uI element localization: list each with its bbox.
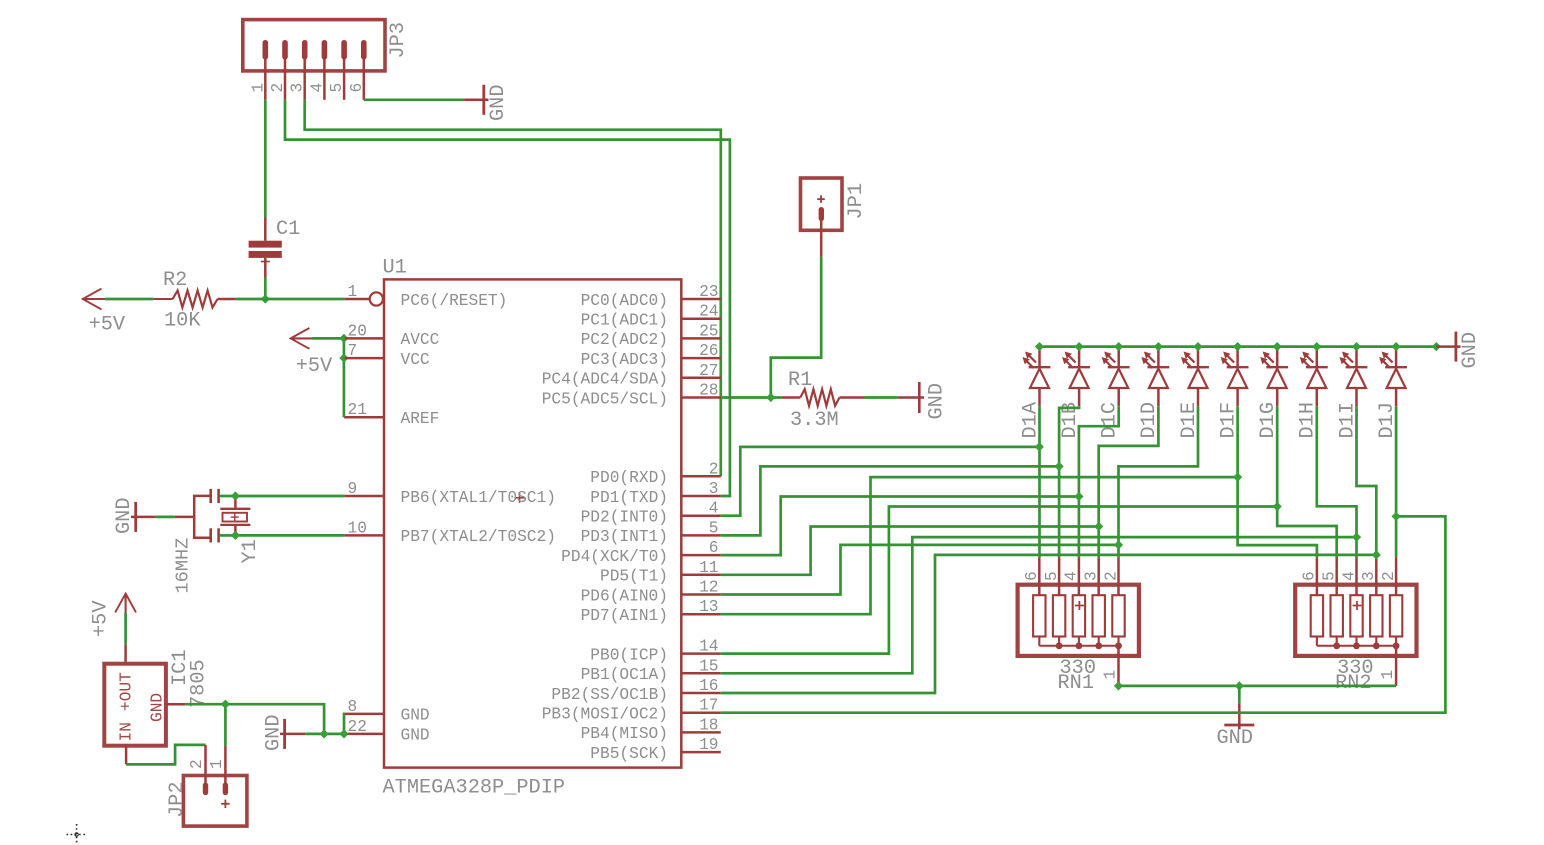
svg-text:PC3(ADC3): PC3(ADC3)	[581, 351, 668, 369]
svg-text:4: 4	[1340, 571, 1358, 581]
svg-text:14: 14	[699, 638, 718, 656]
svg-text:6: 6	[709, 539, 719, 557]
wire LED cathode bus	[1040, 345, 1437, 348]
svg-text:PD4(XCK/T0): PD4(XCK/T0)	[561, 548, 668, 566]
svg-text:GND: GND	[401, 727, 430, 745]
svg-text:U1: U1	[383, 257, 407, 280]
node junction D1H	[1352, 533, 1361, 542]
wire U1 PD2 to D1A	[721, 447, 1040, 516]
resonator Y1 16MHz	[175, 516, 194, 519]
LED D1C	[1117, 347, 1120, 368]
wire U1 PB3 to D1J	[721, 516, 1446, 712]
wire JP3 pin3 to U1 PD0(RXD)	[305, 100, 721, 477]
svg-text:26: 26	[699, 342, 718, 360]
svg-text:Y1: Y1	[239, 539, 262, 563]
svg-text:19: 19	[699, 736, 718, 754]
svg-text:GND: GND	[149, 693, 167, 722]
svg-text:VCC: VCC	[401, 351, 430, 369]
wire U1 PC5 to R1	[721, 396, 782, 399]
svg-text:3: 3	[1083, 571, 1101, 581]
resistor R1 3.3M	[782, 396, 800, 399]
RN2 pin 1	[1395, 646, 1398, 686]
svg-text:PB3(MOSI/OC2): PB3(MOSI/OC2)	[542, 706, 668, 724]
svg-text:PC2(ADC2): PC2(ADC2)	[581, 331, 668, 349]
svg-text:JP3: JP3	[387, 22, 410, 59]
svg-text:4: 4	[1063, 571, 1081, 581]
svg-text:5: 5	[1321, 571, 1339, 581]
wire U1 PD3 to D1B	[721, 466, 1059, 535]
node D1F cathode junction	[1233, 342, 1242, 351]
svg-text:+OUT: +OUT	[118, 672, 136, 711]
wire JP3 pin2 to U1 PD1(TXD)	[285, 100, 730, 496]
wire JP3 pin1 to C1	[264, 100, 267, 218]
svg-text:2: 2	[188, 759, 206, 769]
node XTAL2 junction	[231, 531, 240, 540]
svg-text:7805: 7805	[188, 659, 211, 708]
LED D1A	[1038, 347, 1041, 368]
wire JP2 pin1 drop	[224, 704, 227, 746]
svg-text:R2: R2	[163, 269, 187, 292]
svg-text:RN2: RN2	[1335, 672, 1372, 695]
node junction D1B	[1055, 462, 1064, 471]
svg-text:25: 25	[699, 322, 718, 340]
svg-text:PB2(SS/OC1B): PB2(SS/OC1B)	[551, 686, 668, 704]
LED D1B	[1078, 347, 1081, 368]
svg-text:PB5(SCK): PB5(SCK)	[590, 745, 668, 763]
svg-text:6: 6	[1023, 571, 1041, 581]
wire D1F to RN2 pin6	[1238, 406, 1317, 557]
node GND junction 2	[339, 729, 348, 738]
wire IC1 GND to JP2 pin1 node	[185, 703, 225, 706]
svg-text:PB0(ICP): PB0(ICP)	[590, 646, 668, 664]
wire GND to Y1	[155, 516, 174, 519]
svg-text:23: 23	[699, 283, 718, 301]
node GND junction 1	[320, 729, 329, 738]
node PC5 junction	[766, 393, 775, 402]
node AVCC junction	[339, 334, 348, 343]
svg-text:+5V: +5V	[89, 314, 126, 337]
svg-text:5: 5	[709, 519, 719, 537]
svg-text:15: 15	[699, 657, 718, 675]
node D1C cathode junction	[1114, 342, 1123, 351]
svg-text:3: 3	[709, 480, 719, 498]
svg-text:ATMEGA328P_PDIP: ATMEGA328P_PDIP	[383, 777, 566, 800]
svg-text:PB4(MISO): PB4(MISO)	[581, 725, 668, 743]
wire GND net to U1 GND pins	[225, 704, 324, 734]
node D1G cathode junction	[1273, 342, 1282, 351]
svg-text:JP1: JP1	[845, 183, 868, 220]
svg-text:C1: C1	[276, 218, 300, 241]
svg-text:PC0(ADC0): PC0(ADC0)	[581, 292, 668, 310]
wire +5V to IC1 OUT	[124, 613, 127, 645]
svg-text:PD5(T1): PD5(T1)	[600, 568, 668, 586]
wire D1A to RN1 pin6	[1038, 406, 1041, 557]
resistor network RN1 330	[1018, 585, 1139, 656]
LED D1H	[1316, 347, 1319, 368]
svg-text:PB7(XTAL2/T0SC2): PB7(XTAL2/T0SC2)	[401, 528, 556, 546]
LED D1I	[1355, 347, 1358, 368]
svg-text:PD6(AIN0): PD6(AIN0)	[581, 587, 668, 605]
node D1H cathode junction	[1312, 342, 1321, 351]
svg-text:24: 24	[699, 303, 718, 321]
U1 left-side pins	[345, 298, 370, 301]
svg-text:1: 1	[208, 759, 226, 769]
node VCC junction	[339, 354, 348, 363]
svg-text:1: 1	[348, 283, 358, 301]
wire D1E to RN1 pin2	[1119, 406, 1199, 557]
wire U1 PB0 to D1G	[721, 507, 1277, 654]
wire R1 to GND	[865, 396, 898, 399]
svg-text:GND: GND	[1459, 332, 1482, 369]
wire RESET node to U1 pin1	[265, 298, 344, 301]
svg-text:13: 13	[699, 598, 718, 616]
node RESET junction	[261, 294, 270, 303]
svg-text:7: 7	[348, 342, 358, 360]
wire GND to U1 pin22	[305, 733, 344, 736]
wire R2 to RESET node	[236, 298, 265, 301]
svg-text:GND: GND	[1217, 727, 1254, 750]
wire JP3 pin6 to GND	[364, 98, 464, 101]
svg-text:AREF: AREF	[401, 410, 440, 428]
node junction D1G	[1273, 502, 1282, 511]
wire IC1 IN to JP2 pin2	[126, 745, 205, 765]
svg-text:PD0(RXD): PD0(RXD)	[590, 469, 668, 487]
svg-text:4: 4	[709, 500, 719, 518]
node RN1 pin1	[1114, 681, 1123, 690]
regulator IC1 7805	[124, 645, 127, 664]
wire D1J to RN2 pin2	[1395, 406, 1398, 557]
ground GND (near JP2)	[283, 719, 286, 749]
svg-text:GND: GND	[926, 383, 949, 420]
wire D1I to RN2 pin3	[1357, 406, 1377, 557]
svg-text:2: 2	[1380, 571, 1398, 581]
svg-text:6: 6	[1301, 571, 1319, 581]
svg-text:12: 12	[699, 579, 718, 597]
svg-text:PD7(AIN1): PD7(AIN1)	[581, 607, 668, 625]
wire Y1 to U1 XTAL2	[235, 534, 344, 537]
ground GND (LED bus)	[1436, 345, 1460, 348]
LED D1G	[1276, 347, 1279, 368]
supply +5V (at IC1)	[115, 594, 136, 613]
U1 symbol origin cross	[515, 497, 525, 499]
svg-text:1: 1	[1379, 670, 1397, 680]
svg-text:9: 9	[348, 480, 358, 498]
svg-text:PC5(ADC5/SCL): PC5(ADC5/SCL)	[542, 390, 668, 408]
svg-text:JP2: JP2	[166, 781, 189, 818]
wire U1 PD7 to D1F	[721, 477, 1238, 614]
svg-text:2: 2	[1102, 571, 1120, 581]
ground GND (below RNs)	[1238, 686, 1241, 703]
wire U1 PB1 to D1H	[721, 537, 1357, 673]
node JP2 pin1 junction	[221, 700, 230, 709]
node junction D1J	[1392, 512, 1401, 521]
LED D1J	[1395, 347, 1398, 368]
node D1A cathode junction	[1035, 342, 1044, 351]
node D1E cathode junction	[1193, 342, 1202, 351]
svg-text:PC6(/RESET): PC6(/RESET)	[401, 292, 508, 310]
node junction D1A	[1035, 442, 1044, 451]
svg-text:RN1: RN1	[1058, 672, 1095, 695]
node junction D1C	[1074, 492, 1083, 501]
RN1 pin 1	[1117, 646, 1120, 686]
node XTAL1 junction	[231, 491, 240, 500]
svg-text:10: 10	[348, 519, 367, 537]
svg-text:+5V: +5V	[296, 355, 333, 378]
svg-text:3: 3	[1360, 571, 1378, 581]
svg-text:11: 11	[699, 559, 718, 577]
node junction D1I	[1372, 550, 1381, 559]
svg-text:3.3M: 3.3M	[790, 409, 839, 432]
svg-text:PB1(OC1A): PB1(OC1A)	[581, 666, 668, 684]
svg-text:2: 2	[709, 460, 719, 478]
wire Y1 bottom cap to node	[220, 534, 236, 537]
LED D1E	[1197, 347, 1200, 368]
node bus-GND junction	[1432, 342, 1441, 351]
node D1B cathode junction	[1075, 342, 1084, 351]
resistor R2 10K	[153, 298, 172, 300]
wire RN1 pin1 to RN2 pin1	[1119, 685, 1397, 688]
svg-text:3: 3	[289, 83, 307, 93]
supply +5V (left)	[83, 289, 102, 310]
svg-text:+5V: +5V	[90, 600, 113, 637]
svg-text:18: 18	[699, 716, 718, 734]
svg-text:PC4(ADC4/SDA): PC4(ADC4/SDA)	[542, 371, 668, 389]
ground GND (at JP3)	[464, 99, 488, 102]
svg-text:PD2(INT0): PD2(INT0)	[581, 509, 668, 527]
node GND drop junction	[1235, 681, 1244, 690]
supply +5V (AVCC/VCC)	[291, 328, 310, 349]
wire D1C to RN1 pin4	[1079, 406, 1119, 557]
wire C1 to RESET node	[264, 278, 267, 300]
node D1J cathode junction	[1392, 342, 1401, 351]
wire JP1 to PC5 node	[771, 257, 821, 398]
IC1 IN pin	[125, 746, 128, 765]
sheet origin mark	[67, 834, 88, 836]
svg-text:PC1(ADC1): PC1(ADC1)	[581, 312, 668, 330]
resistor network RN2 330	[1295, 585, 1416, 656]
node D1D cathode junction	[1154, 342, 1163, 351]
svg-text:1: 1	[249, 83, 267, 93]
svg-text:5: 5	[1043, 571, 1061, 581]
U1 right-side pins	[681, 298, 721, 301]
svg-text:PB6(XTAL1/T0SC1): PB6(XTAL1/T0SC1)	[401, 489, 556, 507]
wire to U1 pin8	[343, 714, 346, 734]
svg-text:10K: 10K	[164, 310, 201, 333]
svg-text:28: 28	[699, 382, 718, 400]
svg-text:22: 22	[348, 718, 367, 736]
wire D1B to RN1 pin5	[1059, 406, 1079, 557]
wire D1H to RN2 pin4	[1317, 406, 1357, 557]
svg-text:4: 4	[308, 83, 326, 93]
wire Y1 to U1 XTAL1	[235, 495, 344, 498]
wire U1 PD4 to D1C	[721, 497, 1079, 556]
wire U1 PB2 to D1I	[721, 555, 1377, 693]
svg-text:21: 21	[348, 401, 367, 419]
svg-text:5: 5	[328, 83, 346, 93]
svg-text:27: 27	[699, 362, 718, 380]
svg-text:PD1(TXD): PD1(TXD)	[590, 489, 668, 507]
node junction D1F	[1233, 473, 1242, 482]
node junction D1E	[1114, 540, 1123, 549]
wire D1G to RN2 pin5	[1277, 406, 1337, 557]
wire Y1 top cap to node	[220, 495, 236, 498]
svg-text:GND: GND	[113, 497, 136, 534]
wire D1D to RN1 pin3	[1099, 406, 1159, 557]
svg-text:1: 1	[1102, 670, 1120, 680]
IC U1 ATMEGA328P_PDIP body	[384, 279, 681, 767]
LED D1F	[1236, 347, 1239, 368]
ground GND (at R1)	[898, 396, 924, 399]
svg-text:GND: GND	[487, 84, 510, 121]
capacitor C1	[264, 218, 267, 241]
svg-text:GND: GND	[263, 714, 286, 751]
svg-text:IN: IN	[118, 722, 136, 741]
connector JP3	[243, 20, 385, 71]
wire +5V to R2	[105, 298, 153, 301]
svg-text:PD3(INT1): PD3(INT1)	[581, 528, 668, 546]
svg-text:2: 2	[269, 83, 287, 93]
wire +5V to AVCC/VCC/AREF	[312, 337, 344, 340]
svg-text:16: 16	[699, 677, 718, 695]
wire U1 PD5 to D1D	[721, 527, 1099, 575]
connector JP1	[801, 178, 843, 230]
connector JP2	[183, 776, 247, 827]
ground GND (at Y1)	[134, 502, 137, 532]
node junction D1D	[1094, 522, 1103, 531]
IC1 GND pin	[166, 703, 185, 706]
svg-text:20: 20	[348, 322, 367, 340]
svg-text:AVCC: AVCC	[401, 331, 440, 349]
LED D1D	[1157, 347, 1160, 368]
svg-text:16MHZ: 16MHZ	[173, 538, 194, 594]
node D1I cathode junction	[1352, 342, 1361, 351]
svg-text:8: 8	[348, 698, 358, 716]
svg-text:6: 6	[348, 83, 366, 93]
svg-text:17: 17	[699, 697, 718, 715]
svg-text:R1: R1	[788, 369, 812, 392]
svg-text:GND: GND	[401, 707, 430, 725]
wire U1 PD6 to D1E	[721, 545, 1119, 595]
